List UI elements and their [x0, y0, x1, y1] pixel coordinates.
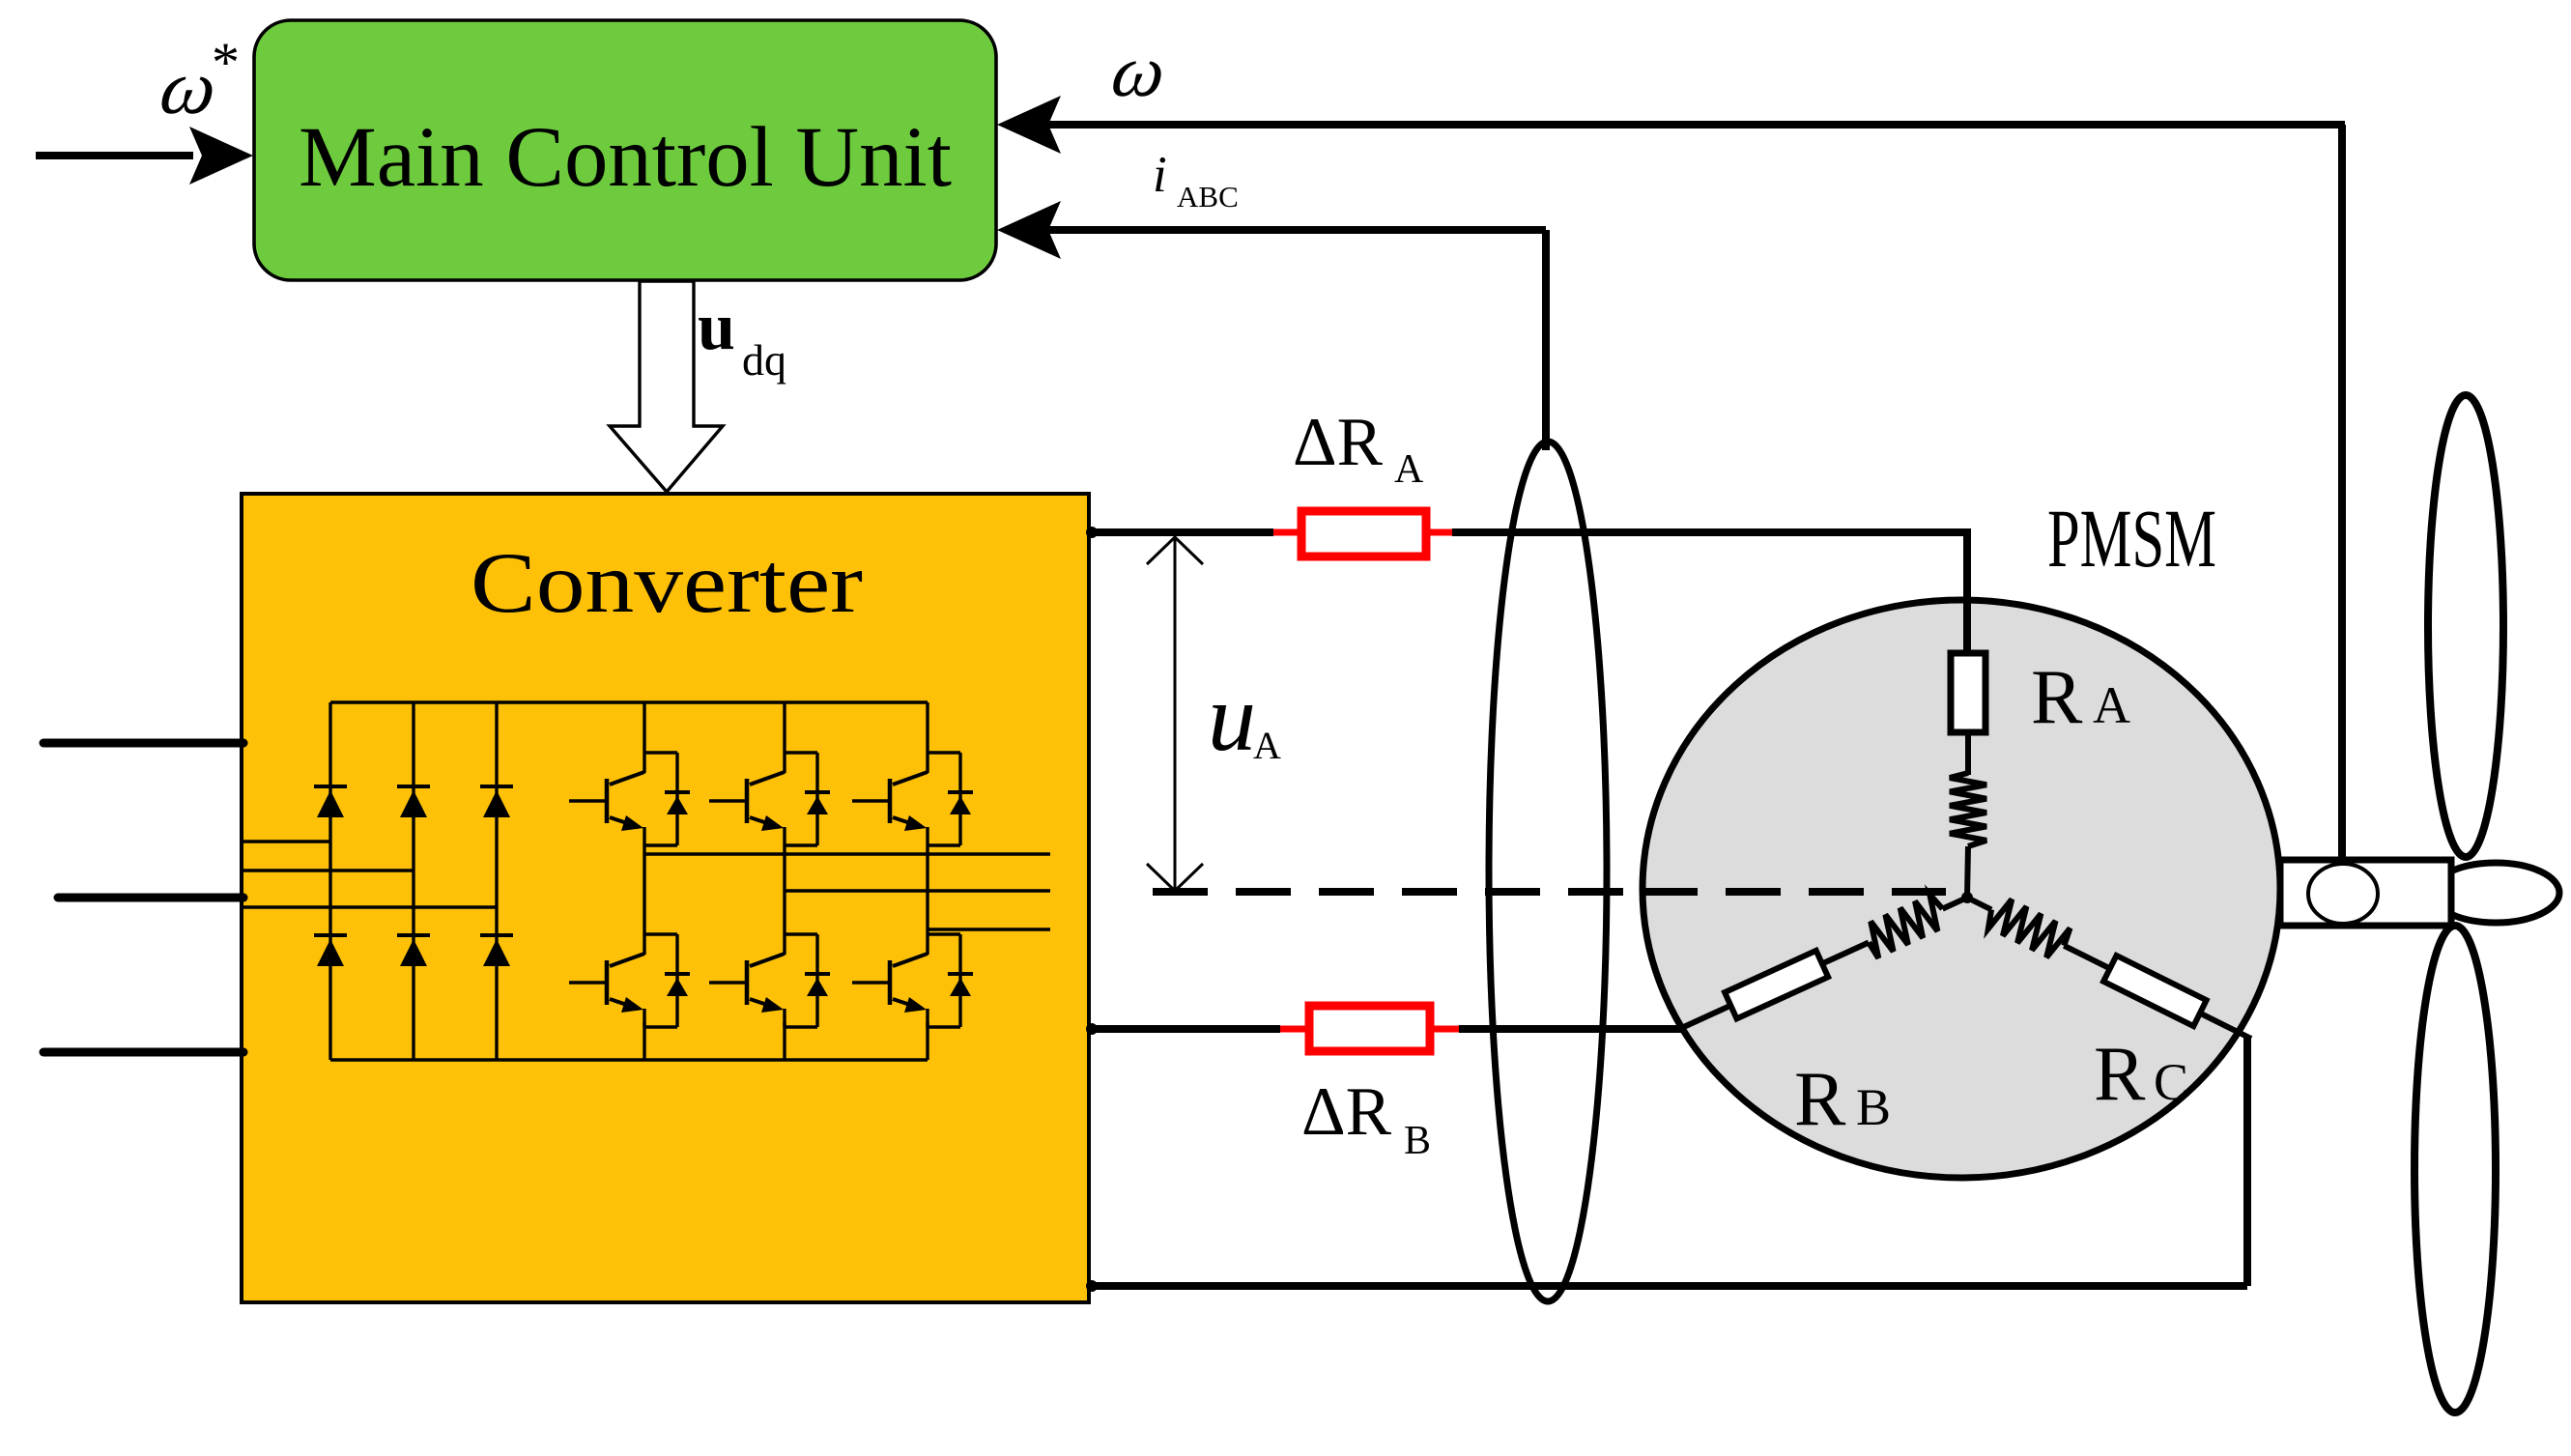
diode D3 top — [480, 785, 513, 788]
transistor Q4 lower (IGBT) — [644, 932, 677, 935]
transistor Q1 upper (IGBT) — [644, 751, 677, 754]
wire red stub left dRB — [1280, 1026, 1309, 1033]
wire to star point — [1967, 846, 1968, 898]
wire DC bottom bus — [330, 1058, 928, 1061]
svg-text:*: * — [212, 31, 240, 94]
resistor RB winding — [1725, 951, 1828, 1019]
wire phase3 to leg3 — [243, 905, 497, 908]
resistor RC winding — [2103, 956, 2207, 1026]
svg-text:B: B — [1856, 1078, 1891, 1136]
wire phase A to PMSM — [1452, 528, 1971, 536]
wire phase B to PMSM — [1459, 1025, 1684, 1033]
wire RA lead — [1965, 732, 1971, 775]
inductor RB coil — [1869, 895, 1942, 958]
wire AC input phase 1 — [43, 739, 243, 748]
wire inverter leg 1 upper — [643, 702, 645, 753]
diode D6 bottom — [480, 933, 513, 937]
svg-text:Converter: Converter — [471, 536, 863, 631]
wire inverter leg 1 lower — [643, 1022, 645, 1060]
wire inverter leg 1 middle — [643, 845, 645, 934]
wire phase C from converter bottom — [1089, 1282, 2247, 1290]
svg-text:u: u — [1208, 664, 1256, 771]
svg-text:ΔR: ΔR — [1293, 405, 1384, 480]
wire phase1 to leg1 — [243, 840, 330, 842]
diode D5 bottom — [397, 933, 430, 937]
diode D2 top — [397, 785, 430, 788]
shaft housing — [2280, 860, 2451, 926]
shaft hub circle — [2308, 864, 2378, 924]
wire phase2 to leg2 — [243, 869, 414, 871]
transistor Q3 upper (IGBT) — [928, 751, 960, 754]
wire inverter leg 3 middle — [926, 845, 928, 934]
node phase C output — [1086, 1280, 1098, 1292]
wire inverter leg 2 lower — [783, 1022, 786, 1060]
wire inverter leg 2 upper — [783, 702, 786, 753]
wire dashed line inside motor — [1643, 888, 1946, 896]
wire inverter leg 2 middle — [783, 845, 786, 934]
diode D1 top — [314, 785, 347, 788]
arrowhead omega* into MCU — [189, 127, 253, 185]
wire omega* input shaft — [36, 152, 193, 159]
resistor RA winding — [1951, 653, 1985, 732]
wire inverter leg 3 upper — [926, 702, 928, 753]
node phase B output — [1086, 1023, 1098, 1035]
svg-text:B: B — [1404, 1119, 1431, 1163]
wire i_ABC vertical to sensor ring — [1542, 230, 1550, 450]
resistor dRA (line fault resistance) — [1301, 511, 1426, 557]
wire inverter output phase C internal — [928, 928, 1050, 930]
wire red stub right dRA — [1426, 529, 1454, 536]
svg-text:R: R — [1794, 1057, 1846, 1142]
dimension arrow u_A — [1174, 538, 1177, 889]
wire phase B from converter — [1089, 1025, 1280, 1033]
wire red stub left dRA — [1273, 529, 1301, 536]
spinner cone — [2432, 863, 2559, 923]
wire rectifier leg 2 — [412, 702, 414, 1060]
Converter block — [242, 494, 1089, 1302]
wire dashed neutral reference line — [1153, 888, 1946, 896]
node omega* reference input — [155, 44, 222, 129]
winding RC leg — [1967, 898, 1991, 910]
transistor Q5 lower (IGBT) — [785, 932, 817, 935]
wire AC input phase 2 — [58, 894, 243, 902]
wire omega feedback vertical from propeller shaft — [2338, 125, 2346, 861]
propeller blade lower — [2414, 926, 2496, 1413]
svg-text:R: R — [2031, 655, 2083, 740]
svg-text:dq: dq — [742, 335, 786, 385]
svg-text:R: R — [2094, 1032, 2146, 1117]
propeller blade upper — [2428, 395, 2503, 857]
svg-text:PMSM: PMSM — [2047, 492, 2216, 585]
svg-text:ΔR: ΔR — [1301, 1074, 1392, 1150]
Main Control Unit block — [254, 20, 996, 280]
inductor LA coil — [1950, 773, 1986, 846]
node omega speed feedback — [1106, 30, 1171, 111]
node phase A output — [1086, 527, 1098, 538]
resistor dRB (line fault resistance) — [1309, 1006, 1430, 1051]
svg-text:i: i — [1153, 147, 1167, 203]
winding RB leg — [1943, 898, 1968, 909]
wire omega feedback horizontal — [1048, 121, 2345, 128]
svg-text:A: A — [2093, 676, 2130, 734]
transistor Q2 upper (IGBT) — [785, 751, 817, 754]
wire inverter output phase A internal — [644, 852, 1050, 855]
svg-text:Main Control Unit: Main Control Unit — [299, 110, 952, 205]
svg-text:A: A — [1394, 447, 1424, 492]
wire DC top bus — [330, 700, 928, 703]
svg-text:A: A — [1253, 724, 1281, 767]
wire i_ABC horizontal — [1048, 226, 1546, 234]
svg-text:u: u — [698, 290, 735, 364]
inductor RC coil — [1988, 899, 2071, 957]
arrowhead i_ABC into MCU — [997, 201, 1061, 259]
transistor Q6 lower (IGBT) — [928, 932, 960, 935]
wire rectifier leg 3 — [495, 702, 498, 1060]
wire phase A from converter — [1089, 528, 1273, 536]
wire inverter leg 3 lower — [926, 1022, 928, 1060]
arrowhead omega into MCU — [997, 96, 1061, 154]
wire inverter output phase B internal — [785, 889, 1050, 892]
PMSM motor body — [1643, 600, 2280, 1178]
wire phase C vertical to PMSM — [2243, 1036, 2251, 1286]
current sensor ring (ellipse around phase wires) — [1489, 442, 1607, 1301]
diode D4 bottom — [314, 933, 347, 937]
star point node — [1961, 892, 1973, 903]
svg-text:C: C — [2154, 1053, 2188, 1111]
wire rectifier leg 1 — [329, 702, 331, 1060]
svg-text:ABC: ABC — [1177, 180, 1239, 214]
wire red stub right dRB — [1430, 1026, 1461, 1033]
wire AC input phase 3 — [43, 1048, 243, 1057]
u_dq command arrow MCU to Converter — [610, 281, 723, 492]
wire phase A lead down into motor — [1963, 532, 1971, 653]
